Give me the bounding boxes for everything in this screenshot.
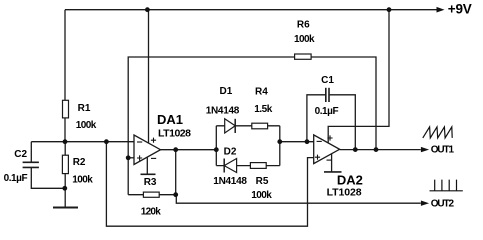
svg-text:C1: C1: [321, 75, 334, 86]
svg-text:R3: R3: [144, 177, 157, 188]
svg-text:100k: 100k: [76, 120, 97, 131]
svg-text:LT1028: LT1028: [327, 186, 362, 198]
svg-text:OUT2: OUT2: [431, 199, 455, 210]
svg-text:100k: 100k: [294, 34, 315, 45]
svg-text:R5: R5: [256, 176, 269, 187]
svg-text:R6: R6: [297, 19, 310, 30]
svg-text:DA1: DA1: [157, 112, 183, 127]
svg-text:100k: 100k: [251, 190, 272, 201]
svg-text:1N4148: 1N4148: [206, 106, 240, 117]
svg-text:D1: D1: [220, 86, 233, 97]
svg-text:R2: R2: [73, 157, 86, 168]
svg-text:DA2: DA2: [337, 173, 363, 188]
svg-text:1N4148: 1N4148: [213, 176, 247, 187]
svg-text:1.5k: 1.5k: [254, 104, 272, 115]
svg-text:R1: R1: [78, 103, 91, 114]
svg-text:OUT1: OUT1: [431, 145, 455, 156]
svg-text:120k: 120k: [141, 207, 161, 218]
svg-text:C2: C2: [14, 149, 27, 160]
svg-text:0.1µF: 0.1µF: [4, 173, 28, 184]
svg-text:100k: 100k: [72, 174, 93, 185]
svg-text:0.1µF: 0.1µF: [315, 106, 339, 117]
svg-text:LT1028: LT1028: [158, 128, 191, 140]
svg-text:R4: R4: [255, 87, 268, 98]
svg-text:+9V: +9V: [448, 2, 472, 17]
svg-text:D2: D2: [224, 146, 237, 157]
